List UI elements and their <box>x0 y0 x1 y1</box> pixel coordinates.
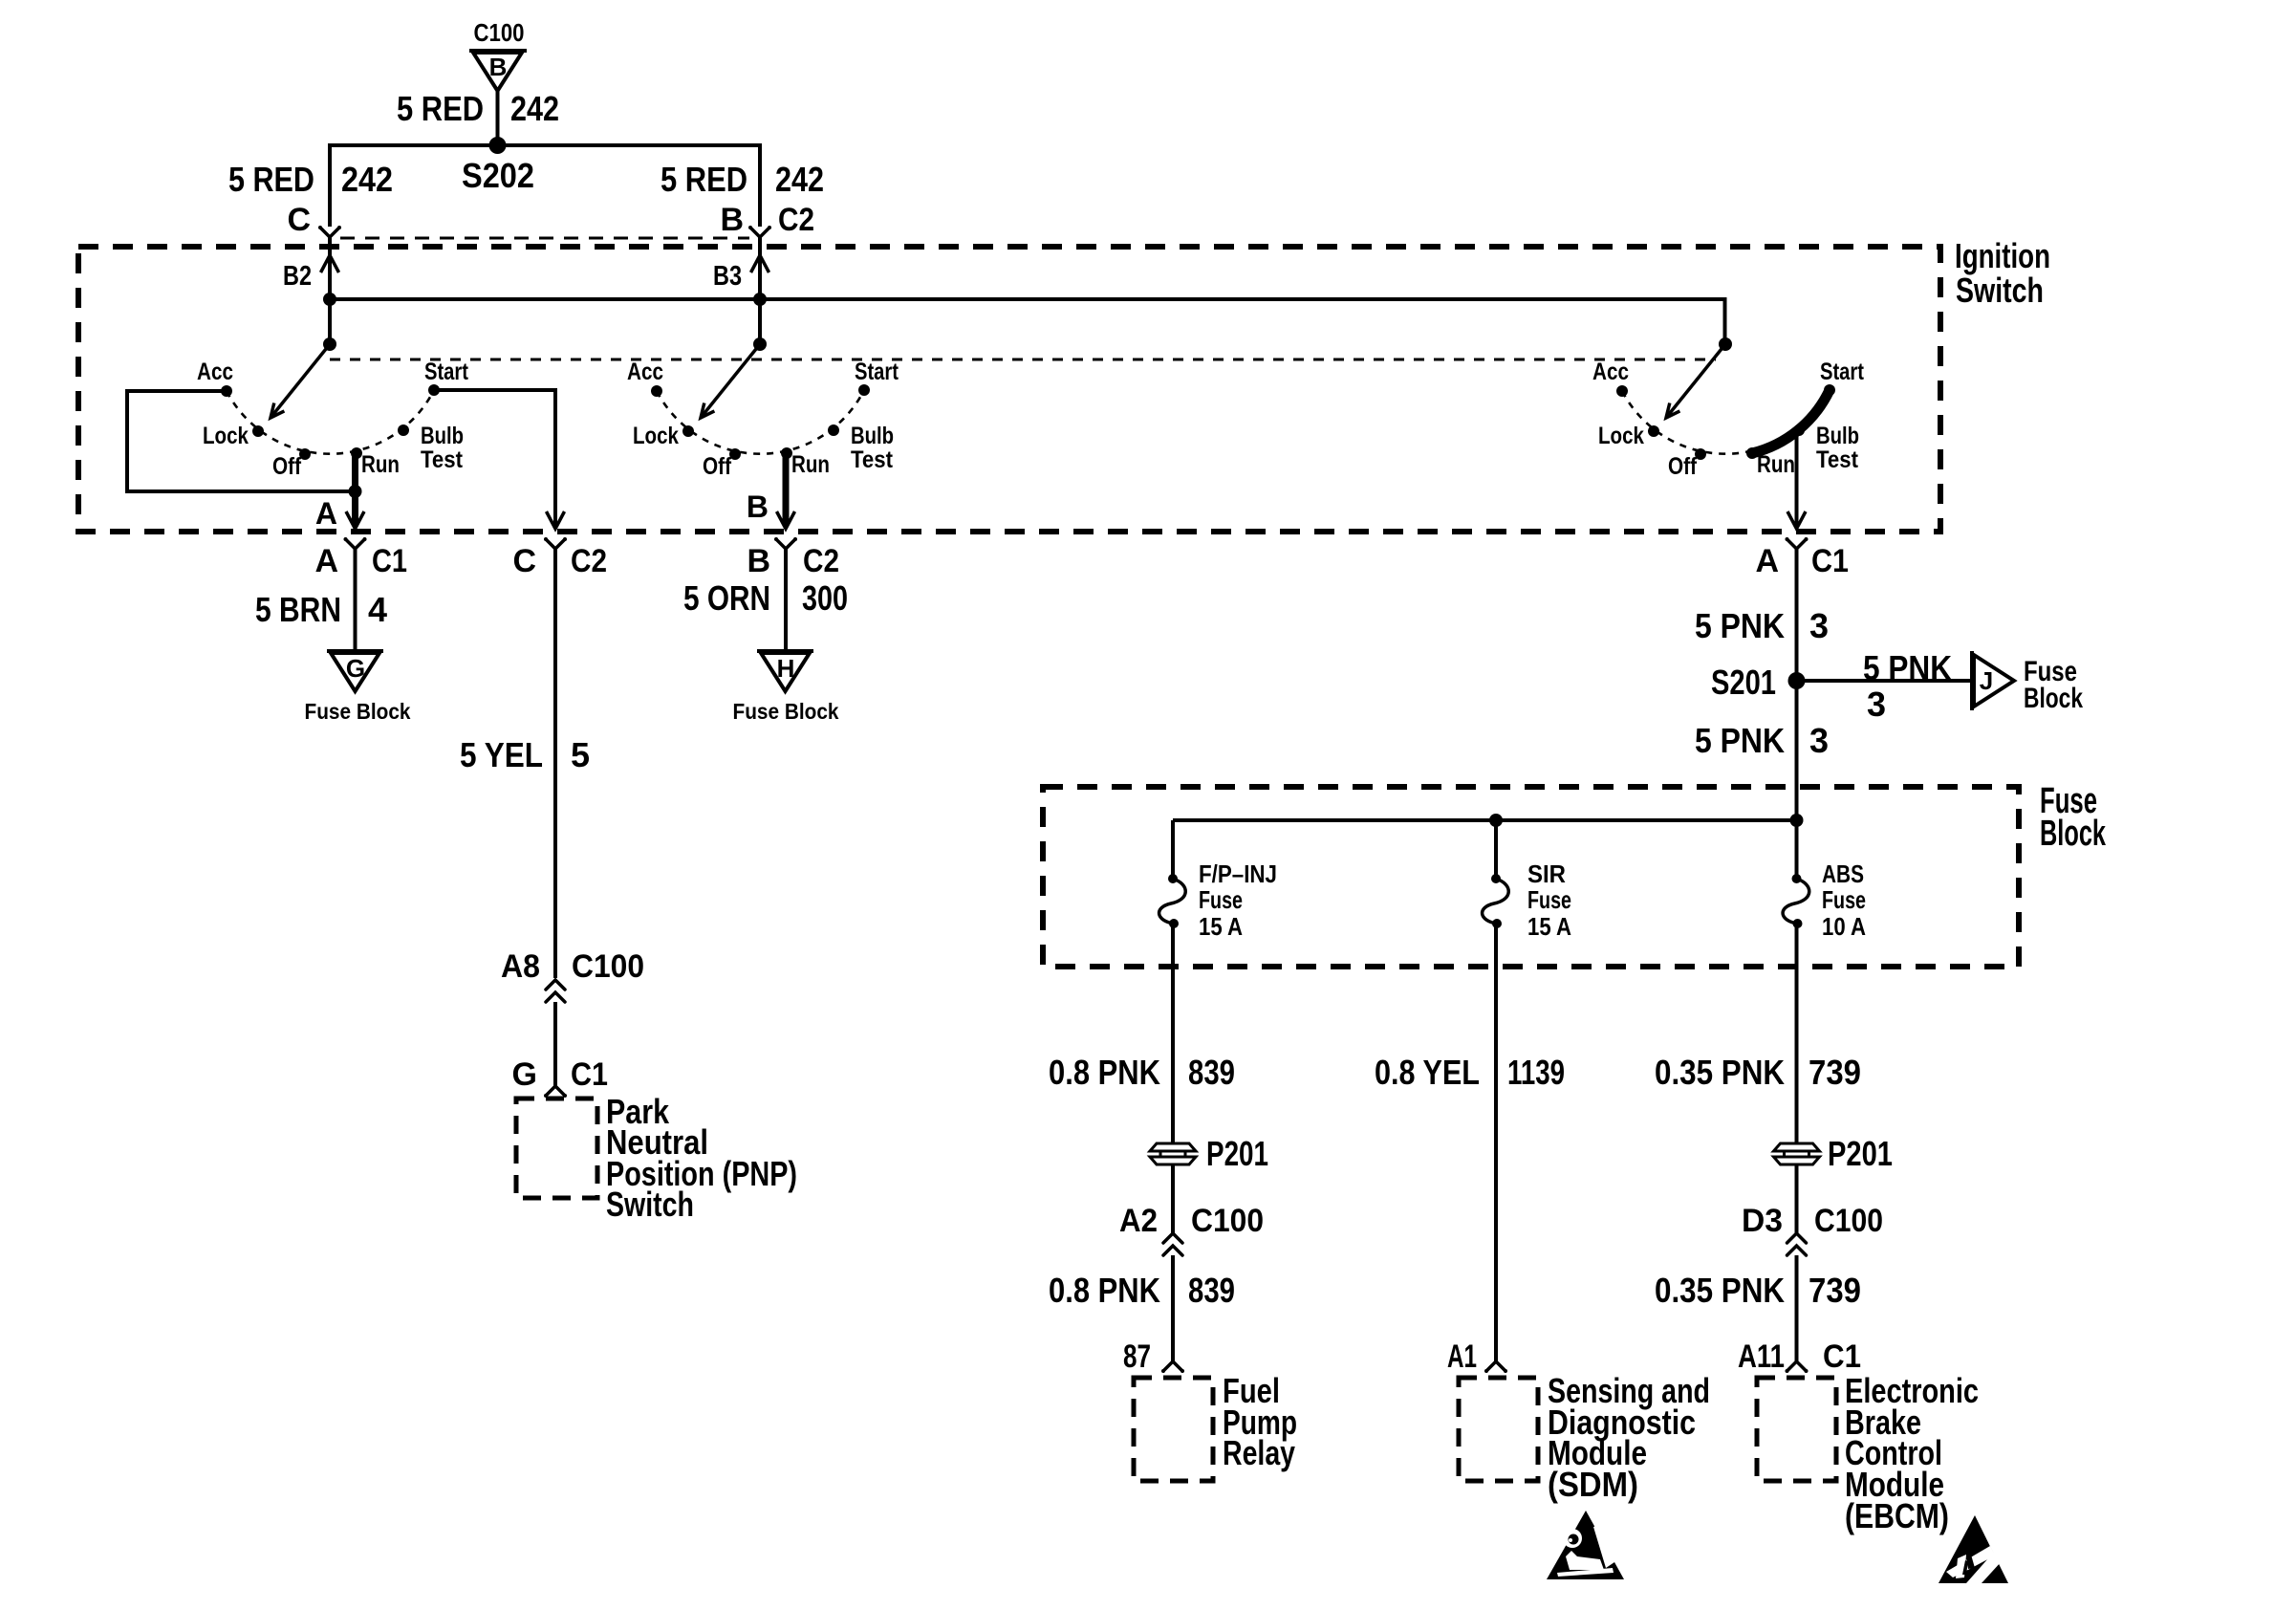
svg-text:0.8 PNK: 0.8 PNK <box>1049 1053 1160 1092</box>
svg-text:242: 242 <box>510 89 559 128</box>
svg-text:A: A <box>314 543 338 579</box>
svg-text:15 A: 15 A <box>1527 912 1571 941</box>
svg-text:C100: C100 <box>1191 1203 1264 1239</box>
svg-text:ABS: ABS <box>1822 859 1864 888</box>
svg-text:(EBCM): (EBCM) <box>1845 1496 1949 1535</box>
connector A C1 below pole 1 <box>314 537 407 579</box>
svg-text:3: 3 <box>1867 685 1886 724</box>
svg-text:B: B <box>720 202 744 238</box>
fuse block triangle J <box>1972 651 2083 714</box>
svg-text:839: 839 <box>1188 1053 1235 1092</box>
pole 1 Start contact output wire <box>434 390 555 526</box>
svg-text:C2: C2 <box>571 543 607 579</box>
splice S201 <box>1711 663 1806 702</box>
svg-text:0.8 YEL: 0.8 YEL <box>1375 1053 1480 1092</box>
SIR caution symbol <box>1547 1511 1624 1579</box>
terminal B3 entry wire with arrow <box>713 237 769 299</box>
terminal A1 connector <box>1447 1338 1507 1375</box>
svg-text:Switch: Switch <box>606 1185 694 1224</box>
svg-text:C2: C2 <box>778 202 814 238</box>
svg-text:C100: C100 <box>572 948 644 985</box>
svg-text:5 YEL: 5 YEL <box>460 735 543 774</box>
grommet P201 (left) <box>1150 1134 1268 1173</box>
svg-text:5 ORN: 5 ORN <box>683 578 770 618</box>
inline connector D3 C100 <box>1742 1203 1883 1255</box>
connector chevron at C <box>318 226 341 237</box>
fuse block triangle H <box>733 651 839 724</box>
svg-text:S201: S201 <box>1711 663 1776 702</box>
sensing and diagnostic module box <box>1459 1371 1710 1504</box>
wire label 5 PNK 3 (lower) <box>1695 721 1829 760</box>
svg-text:A8: A8 <box>501 948 540 985</box>
inline connector A2 C100 <box>1119 1203 1264 1255</box>
wire C100 to splice S202 <box>496 91 500 145</box>
svg-text:B: B <box>747 490 769 524</box>
grommet P201 (right) <box>1774 1134 1894 1173</box>
svg-text:A11: A11 <box>1738 1338 1785 1375</box>
svg-text:10 A: 10 A <box>1822 912 1866 941</box>
svg-text:5 RED: 5 RED <box>397 89 484 128</box>
wire to C100 <box>1171 1164 1175 1233</box>
svg-text:B: B <box>747 543 770 579</box>
svg-text:D3: D3 <box>1742 1203 1783 1239</box>
svg-text:A: A <box>1755 543 1779 579</box>
svg-text:C: C <box>512 543 536 579</box>
pole 3 output wire <box>1795 433 1799 526</box>
svg-text:5: 5 <box>571 735 590 774</box>
svg-text:G: G <box>512 1056 537 1093</box>
fuse block internal feed bus <box>1173 818 1797 822</box>
splice S202 <box>489 137 507 154</box>
ABS fuse drop wire <box>1795 820 1799 879</box>
svg-text:5 PNK: 5 PNK <box>1695 606 1785 645</box>
pole 3 wiper contact arc Run-Start <box>1752 390 1830 453</box>
svg-text:A: A <box>315 496 337 531</box>
svg-text:P201: P201 <box>1828 1134 1893 1173</box>
svg-text:87: 87 <box>1123 1338 1151 1375</box>
pole 1 output wire terminal A <box>315 453 364 531</box>
svg-text:B3: B3 <box>713 261 742 292</box>
junction dot Acc loop <box>349 485 362 498</box>
connector A11 C1 <box>1738 1338 1861 1375</box>
connector C C2 below pole 1 start contact <box>512 537 607 579</box>
svg-text:739: 739 <box>1809 1053 1861 1092</box>
wire label 5 PNK 3 (upper) <box>1695 606 1829 645</box>
svg-text:15 A: 15 A <box>1199 912 1243 941</box>
ganged wiper mechanical link <box>330 359 1716 361</box>
branch wire S201 to fuse block triangle J <box>1797 679 1973 683</box>
fuel pump relay branch wire <box>1171 924 1175 1143</box>
wire label 5 BRN 4 <box>255 590 387 629</box>
svg-text:0.8 PNK: 0.8 PNK <box>1049 1271 1160 1310</box>
wire label 5 YEL 5 <box>460 735 590 774</box>
svg-text:242: 242 <box>341 160 393 199</box>
svg-text:300: 300 <box>802 578 848 618</box>
svg-text:J: J <box>1980 666 1993 695</box>
wire to C100 <box>1795 1164 1799 1233</box>
svg-text:H: H <box>777 654 795 683</box>
svg-text:C: C <box>287 202 311 238</box>
svg-text:C2: C2 <box>803 543 839 579</box>
svg-text:(SDM): (SDM) <box>1548 1465 1638 1504</box>
svg-text:A1: A1 <box>1447 1338 1477 1375</box>
svg-text:Ignition: Ignition <box>1955 236 2050 275</box>
wire pole 2 feed stub <box>758 299 762 344</box>
svg-text:Block: Block <box>2040 814 2107 854</box>
svg-text:C1: C1 <box>1811 543 1849 579</box>
fuse block component box <box>1043 781 2107 967</box>
svg-text:SIR: SIR <box>1527 859 1566 888</box>
svg-text:G: G <box>346 654 365 683</box>
svg-text:3: 3 <box>1809 606 1829 645</box>
internal feed bus to the three poles <box>330 299 1725 344</box>
connector C2 face dashed line <box>340 237 749 240</box>
fuse block triangle G <box>305 651 411 724</box>
ABS fuse 10 A <box>1783 859 1866 941</box>
SIR fuse drop wire <box>1494 820 1498 879</box>
connector B C2 below pole 2 <box>747 537 839 579</box>
wire to fuse block triangle H <box>784 549 788 651</box>
wire to fuel pump relay <box>1171 1255 1175 1361</box>
svg-text:F/P–INJ: F/P–INJ <box>1199 859 1277 888</box>
terminal B / connector C2 labels <box>720 202 814 238</box>
electronic brake control module box <box>1757 1371 1979 1535</box>
svg-text:Fuse: Fuse <box>1527 885 1571 914</box>
junction dot pole 1 feed <box>323 293 336 306</box>
svg-text:5 RED: 5 RED <box>228 160 314 199</box>
wire label 5 RED 242 (right branch) <box>661 160 824 199</box>
svg-text:Block: Block <box>2024 683 2083 714</box>
svg-text:Switch: Switch <box>1956 271 2044 310</box>
ESD caution symbol <box>1939 1515 2008 1583</box>
junction dot SIR fuse feed <box>1489 814 1503 827</box>
wire label 5 PNK / 3 (branch) <box>1863 648 1952 724</box>
svg-text:242: 242 <box>775 160 824 199</box>
connector chevron at B C2 <box>748 226 771 237</box>
connector A C1 below pole 3 <box>1755 537 1849 579</box>
wire to EBCM <box>1795 1255 1799 1361</box>
wire label 0.8 YEL 1139 <box>1375 1053 1565 1092</box>
svg-text:3: 3 <box>1809 721 1829 760</box>
wire label 0.35 PNK 739 (lower) <box>1655 1271 1861 1310</box>
SDM branch wire <box>1494 924 1498 1361</box>
ignition switch pole 2 <box>627 337 899 480</box>
wire label 0.8 PNK 839 (upper) <box>1049 1053 1235 1092</box>
svg-text:0.35 PNK: 0.35 PNK <box>1655 1271 1785 1310</box>
fuel pump relay box <box>1134 1371 1297 1481</box>
svg-text:Fuse Block: Fuse Block <box>733 699 839 724</box>
wire label 5 RED 242 (left branch) <box>228 160 393 199</box>
svg-text:5 BRN: 5 BRN <box>255 590 341 629</box>
junction dot pole 2 feed <box>753 293 767 306</box>
svg-text:5 RED: 5 RED <box>661 160 747 199</box>
inline connector A8 C100 <box>501 948 644 1002</box>
SIR fuse 15 A <box>1483 859 1572 941</box>
wire down to splice S201 <box>1795 549 1799 820</box>
svg-text:Fuse: Fuse <box>1199 885 1243 914</box>
terminal 87 connector <box>1123 1338 1184 1375</box>
wire bus from branch C to branch B <box>330 145 760 227</box>
junction dot ABS fuse feed <box>1790 814 1804 827</box>
park neutral position switch box <box>516 1092 797 1224</box>
ignition switch component box <box>78 247 1940 532</box>
wire label 5 ORN 300 <box>683 578 848 618</box>
connector C100 triangle B (feed from fuse block) <box>469 18 527 91</box>
pole 2 output wire terminal B <box>747 453 795 529</box>
svg-text:1139: 1139 <box>1507 1053 1565 1092</box>
connector G C1 at PNP switch <box>512 1056 608 1098</box>
svg-text:C1: C1 <box>372 543 407 579</box>
wire to PNP connector <box>553 1002 557 1086</box>
svg-text:739: 739 <box>1809 1271 1861 1310</box>
EBCM branch wire <box>1795 924 1799 1143</box>
pole 1 Acc loop wire <box>127 391 356 491</box>
svg-text:S202: S202 <box>462 156 534 195</box>
wire pole 1 feed stub <box>328 299 332 344</box>
svg-text:C100: C100 <box>1814 1203 1883 1239</box>
svg-text:B2: B2 <box>283 261 312 292</box>
svg-text:4: 4 <box>368 590 387 629</box>
svg-text:A2: A2 <box>1119 1203 1158 1239</box>
svg-text:C1: C1 <box>571 1056 608 1093</box>
wire label 0.35 PNK 739 (upper) <box>1655 1053 1861 1092</box>
svg-text:Relay: Relay <box>1223 1433 1295 1472</box>
svg-text:Fuse Block: Fuse Block <box>305 699 411 724</box>
svg-text:Fuse: Fuse <box>1822 885 1866 914</box>
terminal B2 entry wire with arrow <box>283 237 339 299</box>
ignition switch pole 3 <box>1592 337 1865 480</box>
wire to fuse block triangle G <box>354 549 357 651</box>
ignition switch pole 1 <box>197 337 469 480</box>
svg-text:5 PNK: 5 PNK <box>1695 721 1785 760</box>
wire label 5 RED 242 (center) <box>397 89 559 128</box>
wire down to PNP switch <box>553 549 557 978</box>
svg-text:5 PNK: 5 PNK <box>1863 648 1952 687</box>
svg-text:C1: C1 <box>1823 1338 1861 1375</box>
svg-text:839: 839 <box>1188 1271 1235 1310</box>
svg-text:B: B <box>489 53 508 81</box>
svg-text:P201: P201 <box>1206 1134 1268 1173</box>
wire label 0.8 PNK 839 (lower) <box>1049 1271 1235 1310</box>
svg-text:0.35 PNK: 0.35 PNK <box>1655 1053 1785 1092</box>
svg-text:C100: C100 <box>474 18 525 47</box>
F/P-INJ fuse drop wire <box>1171 820 1175 879</box>
F/P-INJ fuse 15 A <box>1159 859 1277 941</box>
